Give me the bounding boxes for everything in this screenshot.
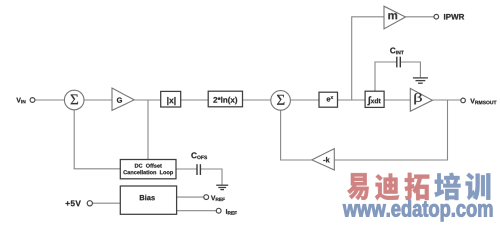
watermark url www.edatop.com <box>343 200 492 221</box>
block e^x exponential <box>319 92 338 107</box>
wire integrator top to CINT <box>375 62 397 91</box>
wire m to IPWR <box>406 16 435 18</box>
block 2*ln(x) <box>208 91 242 107</box>
label integral x dt <box>367 96 380 105</box>
wire COFS to ground <box>200 169 222 185</box>
label |x| <box>167 97 175 105</box>
wire +5V to Bias <box>92 202 120 204</box>
watermark chinese characters yi di tuo pei xun <box>347 173 369 200</box>
wire e^x to integrator <box>338 99 366 101</box>
node +5V terminal <box>87 201 92 206</box>
capacitor CINT <box>396 57 398 68</box>
wire Bias to VREF <box>177 196 204 198</box>
label CINT <box>390 48 404 55</box>
label IPWR <box>444 14 464 20</box>
label beta <box>414 93 421 104</box>
wire S1 down to DC offset box <box>74 110 120 169</box>
wire Bias to IREF <box>177 210 217 212</box>
label m <box>388 13 397 19</box>
amplifier G <box>112 88 134 110</box>
wire junction after G down to DC offset box <box>147 100 149 160</box>
node VIN input terminal <box>30 98 35 103</box>
label Sigma 2 <box>277 95 284 105</box>
label G <box>117 97 122 102</box>
block Bias <box>120 186 176 214</box>
label VREF <box>211 196 225 201</box>
amplifier -k feedback <box>312 149 335 170</box>
node VREF terminal <box>204 195 209 200</box>
label Bias <box>140 195 155 201</box>
node VRMSOUT terminal <box>461 98 466 103</box>
node IREF terminal <box>216 208 221 213</box>
wire -k to output junction <box>334 100 447 160</box>
label e^x <box>327 96 334 101</box>
summing junction S1 <box>64 90 84 110</box>
ground for COFS <box>216 184 228 186</box>
wire 2*ln(x) to S2 <box>243 99 271 101</box>
amplifier beta <box>410 88 432 111</box>
wire junction to m amp <box>352 17 384 100</box>
wire CINT to ground <box>400 62 420 77</box>
amplifier m <box>384 6 406 29</box>
block |x| absolute value <box>161 91 181 107</box>
wire DC offset box to COFS <box>176 168 197 170</box>
label DC Offset <box>135 164 162 168</box>
wire integrator to beta <box>384 99 410 101</box>
label Sigma 1 <box>71 94 78 104</box>
label +5V <box>66 200 81 206</box>
wire S1 to G <box>84 99 112 101</box>
wire beta to VRMSOUT <box>432 99 460 101</box>
wire S2 down to -k <box>281 110 312 160</box>
label COFS <box>191 152 207 159</box>
wire G to |x| <box>134 99 161 101</box>
label VRMSOUT <box>470 99 496 105</box>
wire S2 to e^x <box>290 99 319 101</box>
label 2*ln(x) <box>213 97 237 104</box>
block DC Offset Cancellation Loop <box>120 160 176 179</box>
label VIN <box>16 98 25 104</box>
wire |x| to 2*ln(x) <box>181 99 209 101</box>
ground for CINT <box>413 77 428 79</box>
summing junction S2 <box>271 91 291 111</box>
capacitor COFS <box>196 164 198 175</box>
wire VIN to S1 <box>35 99 65 101</box>
node IPWR terminal <box>434 14 439 19</box>
label IREF <box>226 209 237 214</box>
block integrator xdt <box>365 91 384 107</box>
label -k <box>323 157 329 162</box>
label Cancellation Loop <box>123 170 173 175</box>
